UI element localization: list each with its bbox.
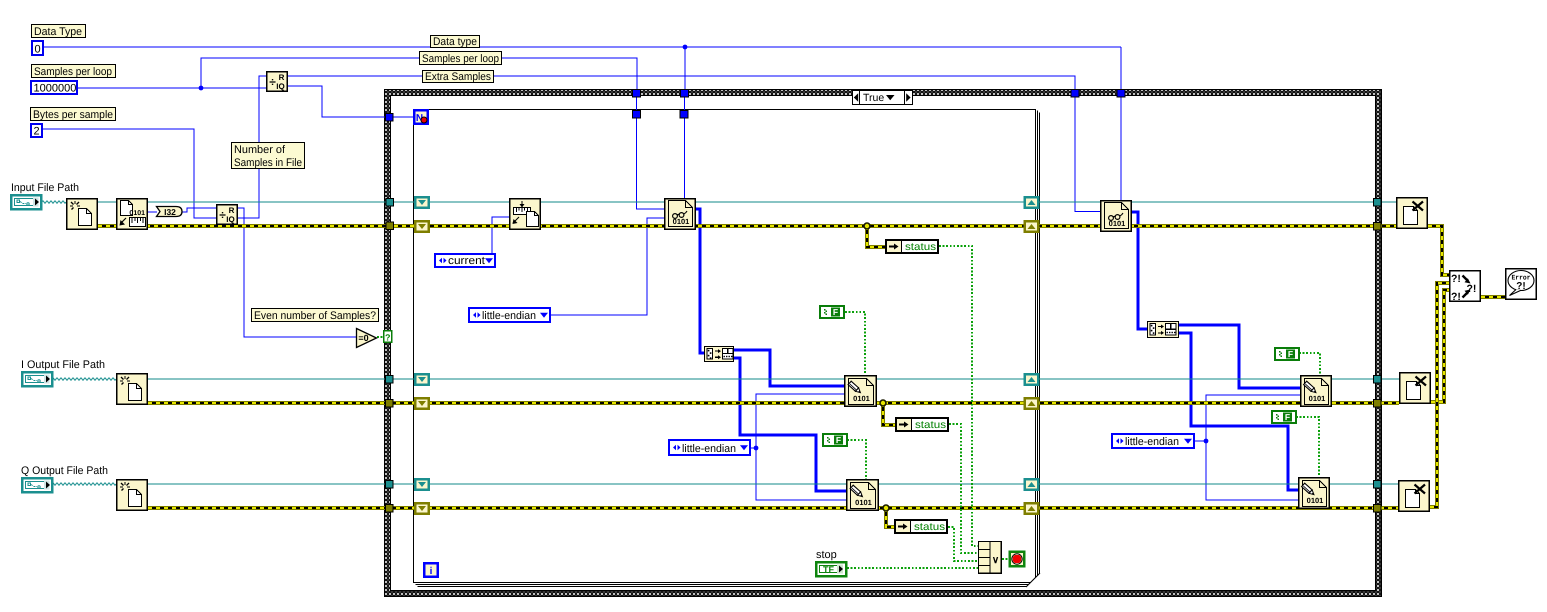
- svg-text:R: R: [279, 73, 285, 82]
- svg-text:little-endian: little-endian: [1125, 436, 1179, 448]
- svg-text:F: F: [836, 435, 841, 445]
- svg-text:Input File Path: Input File Path: [11, 182, 79, 194]
- svg-text:0101: 0101: [1307, 496, 1324, 505]
- svg-text:?: ?: [385, 333, 391, 343]
- svg-text:?!: ?!: [1451, 273, 1461, 285]
- svg-text:F: F: [1288, 349, 1293, 359]
- svg-text:little-endian: little-endian: [482, 310, 536, 322]
- svg-text:?!: ?!: [1451, 291, 1461, 303]
- svg-text:F: F: [833, 307, 838, 317]
- svg-text:Extra Samples: Extra Samples: [425, 71, 491, 83]
- svg-text:status: status: [915, 419, 946, 431]
- svg-text:status: status: [905, 241, 936, 253]
- svg-text:little-endian: little-endian: [682, 443, 736, 455]
- svg-text:Number of: Number of: [234, 144, 286, 156]
- svg-text:0101: 0101: [129, 210, 145, 217]
- svg-text:status: status: [914, 521, 945, 533]
- svg-text:1000000: 1000000: [34, 83, 77, 95]
- svg-text:0101: 0101: [853, 394, 870, 403]
- svg-text:I32: I32: [164, 207, 176, 217]
- svg-text:current: current: [448, 255, 485, 267]
- svg-text:?!: ?!: [1516, 281, 1525, 292]
- svg-text:i: i: [430, 566, 433, 577]
- svg-text:=0: =0: [358, 333, 368, 343]
- svg-text:0: 0: [35, 44, 41, 56]
- svg-text:TF: TF: [823, 565, 834, 575]
- svg-text:I Output File Path: I Output File Path: [21, 359, 105, 371]
- svg-text:Samples per loop: Samples per loop: [34, 66, 112, 78]
- svg-text:÷: ÷: [219, 208, 226, 222]
- svg-text:0101: 0101: [673, 217, 690, 226]
- svg-text:2: 2: [34, 126, 40, 138]
- svg-text:Bytes per sample: Bytes per sample: [33, 109, 113, 121]
- svg-text:0101: 0101: [1109, 219, 1126, 228]
- svg-text:Data type: Data type: [433, 36, 477, 48]
- svg-text:IQ: IQ: [226, 215, 234, 224]
- svg-text:Data Type: Data Type: [34, 26, 82, 38]
- svg-text:stop: stop: [816, 549, 837, 561]
- svg-text:Q Output File Path: Q Output File Path: [21, 465, 108, 477]
- svg-text:R: R: [229, 206, 235, 215]
- svg-text:÷: ÷: [269, 75, 276, 89]
- svg-text:0101: 0101: [855, 498, 872, 507]
- svg-text:Samples per loop: Samples per loop: [422, 53, 499, 65]
- svg-text:Even number of Samples?: Even number of Samples?: [254, 310, 376, 322]
- svg-text:F: F: [1285, 412, 1290, 422]
- svg-text:True: True: [863, 92, 884, 104]
- svg-text:Samples in File: Samples in File: [234, 157, 302, 169]
- svg-text:0101: 0101: [1309, 394, 1326, 403]
- svg-text:IQ: IQ: [276, 82, 284, 91]
- svg-text:∨: ∨: [992, 555, 999, 566]
